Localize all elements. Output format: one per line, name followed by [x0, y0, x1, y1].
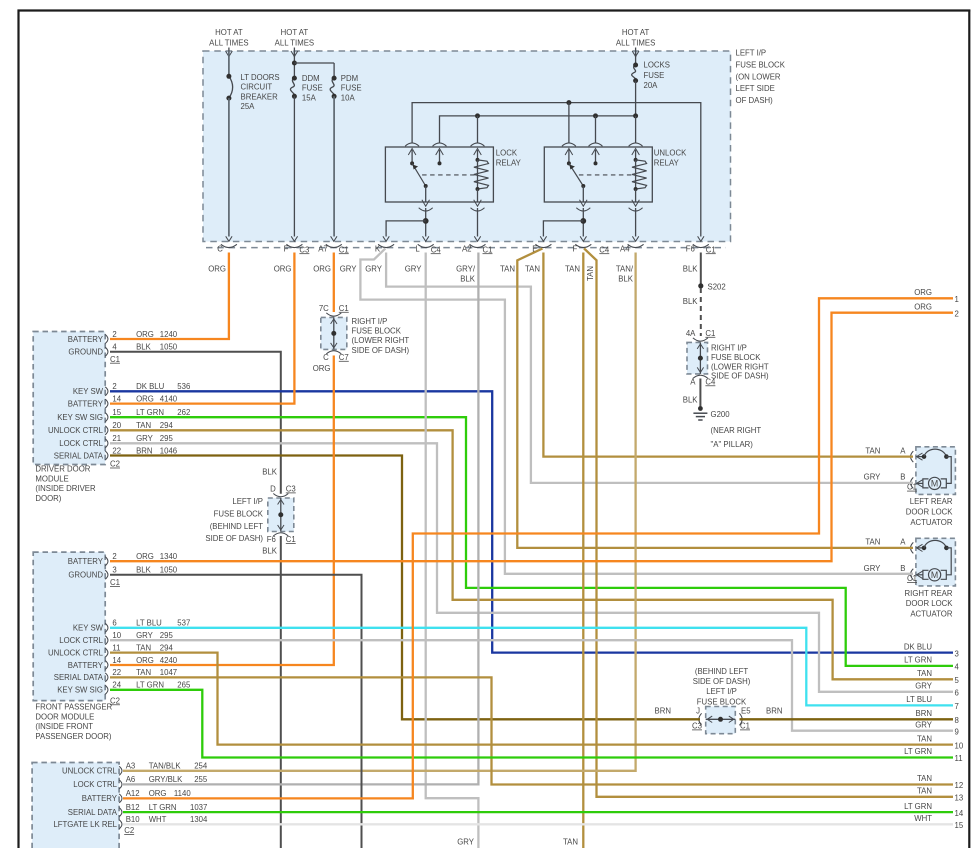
svg-text:LT BLU: LT BLU — [906, 695, 932, 704]
svg-text:C1: C1 — [339, 304, 349, 313]
svg-text:DOOR MODULE: DOOR MODULE — [35, 712, 94, 721]
label: HOT AT ALL TIMES (feed 2) — [275, 28, 314, 47]
svg-text:C1: C1 — [907, 574, 917, 583]
module pin A3 (UNLOCK CTRL) of REAR MODULE — [62, 762, 208, 776]
svg-text:20: 20 — [112, 421, 121, 430]
svg-text:D: D — [270, 485, 276, 494]
svg-text:BRN: BRN — [655, 707, 671, 716]
svg-text:SIDE OF DASH): SIDE OF DASH) — [693, 677, 751, 686]
svg-text:295: 295 — [160, 631, 174, 640]
svg-text:A2: A2 — [462, 245, 472, 254]
svg-text:DRIVER DOOR: DRIVER DOOR — [35, 465, 90, 474]
svg-text:265: 265 — [177, 681, 191, 690]
label: HOT AT ALL TIMES (feed 1) — [209, 28, 248, 47]
svg-text:J: J — [696, 706, 700, 715]
svg-text:GRY: GRY — [365, 264, 383, 273]
module pin 15 (KEY SW SIG) of DRIVER DOOR MODULE — [57, 408, 190, 422]
wire: dashed BLK from S202 to 4A connector — [700, 288, 702, 336]
svg-text:(ON LOWER: (ON LOWER — [736, 72, 781, 81]
svg-text:TAN: TAN — [136, 643, 151, 652]
svg-text:MODULE: MODULE — [35, 474, 68, 483]
svg-text:TAN: TAN — [586, 266, 595, 281]
svg-text:E5: E5 — [741, 706, 751, 715]
module pin 20 (UNLOCK CTRL) of DRIVER DOOR MODULE — [48, 421, 174, 435]
svg-text:BLK: BLK — [683, 264, 699, 273]
svg-text:F6: F6 — [686, 245, 695, 254]
svg-text:LEFT I/P: LEFT I/P — [232, 497, 263, 506]
relay LOCK RELAY: coil — [474, 150, 489, 202]
svg-text:254: 254 — [194, 762, 208, 771]
connector pin F6 at fuse block bottom — [686, 236, 716, 254]
svg-text:22: 22 — [112, 446, 121, 455]
svg-text:TAN/BLK: TAN/BLK — [149, 762, 182, 771]
svg-text:1050: 1050 — [160, 343, 178, 352]
wire GRY 295: passenger LOCK CTRL to right edge (circuit 9) — [110, 640, 953, 731]
label: module caption REAR MODULE — [0, 0, 1, 1]
svg-text:UNLOCK CTRL: UNLOCK CTRL — [48, 648, 104, 657]
module box: DRIVER DOOR MODULE — [33, 332, 105, 465]
wire WHT 1304: rear module LFTGATE LK REL B10 to right edge (circuit 15) — [123, 823, 953, 825]
connector pin F at fuse block bottom — [284, 236, 310, 254]
fuse: PDM FUSE 10A — [294, 63, 336, 237]
svg-text:25A: 25A — [241, 102, 256, 111]
svg-text:B: B — [900, 473, 905, 482]
svg-text:A: A — [690, 377, 696, 386]
svg-text:SIDE OF DASH): SIDE OF DASH) — [205, 534, 263, 543]
svg-text:7: 7 — [955, 702, 959, 711]
splice S202 — [698, 282, 726, 291]
wire LT GRN 262: driver KEY SW SIG to right edge (circuit 4) — [110, 417, 953, 666]
svg-text:A: A — [900, 538, 906, 547]
relay LOCK RELAY: fixed contact leg — [438, 150, 442, 165]
svg-text:C3: C3 — [286, 485, 296, 494]
relay LOCK RELAY: bottom pin at x=477.5 — [471, 200, 485, 211]
svg-text:ORG: ORG — [274, 264, 292, 273]
wire: BLK from F6 to splice S202 — [700, 253, 702, 286]
svg-text:TAN: TAN — [563, 837, 578, 846]
svg-text:ORG: ORG — [149, 789, 167, 798]
label: circuit 14 (LT GRN) at right edge — [904, 802, 964, 818]
svg-text:RIGHT I/P: RIGHT I/P — [352, 317, 388, 326]
svg-text:WHT: WHT — [149, 815, 167, 824]
svg-text:DOOR LOCK: DOOR LOCK — [906, 599, 954, 608]
svg-text:A12: A12 — [126, 789, 140, 798]
relay LOCK RELAY: switch output wire to border with branch — [386, 208, 429, 237]
label: module caption DRIVER DOOR MODULE — [35, 465, 96, 504]
svg-text:6: 6 — [955, 689, 959, 698]
svg-text:DOOR): DOOR) — [35, 494, 61, 503]
svg-text:L: L — [415, 245, 420, 254]
svg-text:ORG: ORG — [313, 264, 331, 273]
svg-text:4A: 4A — [686, 329, 696, 338]
module pin 11 (UNLOCK CTRL) of FRONT PASSENGER DOOR MODULE — [48, 643, 174, 657]
svg-text:F: F — [573, 245, 578, 254]
relay LOCK RELAY: top pin at x=412.1 — [405, 143, 419, 155]
label: circuit 9 (GRY) at right edge — [915, 720, 959, 736]
wire ORG: fuse pin A7 down to 7C/C1 box — [333, 253, 335, 313]
relay LOCK RELAY: linkage dashed line — [422, 174, 475, 176]
svg-text:RIGHT REAR: RIGHT REAR — [905, 589, 953, 598]
wire: BLK from A/C4 to ground G200 — [699, 379, 701, 408]
label: GRY/BLK under pin A2 — [456, 264, 476, 283]
svg-text:BRN: BRN — [916, 709, 932, 718]
svg-text:LOCKS: LOCKS — [644, 61, 670, 70]
wire TAN 1047: passenger SERIAL DATA to right edge (circuit 12) — [110, 677, 953, 784]
svg-text:TAN: TAN — [565, 264, 580, 273]
LEFT REAR DOOR LOCK ACTUATOR: motor M — [917, 457, 952, 490]
svg-text:C1: C1 — [339, 245, 349, 254]
svg-text:14: 14 — [955, 809, 964, 818]
svg-text:BLK: BLK — [460, 274, 476, 283]
connector C1 at top of inline box — [319, 304, 349, 316]
svg-text:BATTERY: BATTERY — [68, 557, 104, 566]
svg-text:ORG: ORG — [208, 264, 226, 273]
wire BLK 1050: driver module GROUND 4 to D/C3 fuse block and down — [110, 352, 281, 494]
svg-text:FUSE BLOCK: FUSE BLOCK — [711, 353, 761, 362]
svg-text:GRY/BLK: GRY/BLK — [149, 775, 183, 784]
svg-text:LOCK CTRL: LOCK CTRL — [59, 636, 103, 645]
RIGHT REAR DOOR LOCK ACTUATOR: internal mechanism arc — [917, 540, 949, 551]
svg-text:BLK: BLK — [618, 274, 634, 283]
svg-text:C3: C3 — [692, 722, 702, 731]
label: circuit 15 (WHT) at right edge — [914, 814, 964, 830]
svg-text:A4: A4 — [620, 245, 630, 254]
relay UNLOCK RELAY: box — [544, 147, 652, 202]
svg-text:F: F — [284, 245, 289, 254]
svg-text:4: 4 — [955, 663, 960, 672]
svg-text:TAN: TAN — [136, 421, 151, 430]
relay UNLOCK RELAY: switch lever — [569, 163, 585, 188]
svg-text:ACTUATOR: ACTUATOR — [910, 609, 953, 618]
relay UNLOCK RELAY: top pin at x=635.6 — [629, 143, 643, 155]
label: circuit 10 (TAN) at right edge — [917, 734, 964, 750]
page frame: top border line — [18, 9, 971, 11]
svg-text:B12: B12 — [126, 803, 140, 812]
svg-text:BLK: BLK — [262, 547, 278, 556]
wire: lower bus drop to unlock relay contact pin — [595, 116, 597, 143]
wire TAN 294: driver UNLOCK CTRL to right edge (circuit 5) — [110, 430, 953, 679]
svg-text:537: 537 — [177, 619, 190, 628]
label: circuit 13 (TAN) at right edge — [917, 787, 963, 803]
svg-text:UNLOCK: UNLOCK — [654, 149, 687, 158]
svg-text:536: 536 — [177, 382, 190, 391]
svg-text:WHT: WHT — [914, 814, 932, 823]
svg-text:(LOWER RIGHT: (LOWER RIGHT — [711, 362, 769, 371]
svg-text:LEFT I/P: LEFT I/P — [706, 687, 737, 696]
relay LOCK RELAY: top pin at x=439.5 — [433, 143, 447, 155]
svg-text:LT GRN: LT GRN — [149, 803, 177, 812]
wire GRY: fuse pin K left branch to right rear actuator pin B — [360, 249, 913, 574]
svg-text:22: 22 — [112, 668, 121, 677]
svg-text:C7: C7 — [339, 353, 349, 362]
svg-text:C2: C2 — [110, 696, 120, 705]
svg-text:294: 294 — [160, 643, 174, 652]
module pin 2 (BATTERY) of DRIVER DOOR MODULE — [68, 330, 178, 344]
svg-text:GROUND: GROUND — [68, 348, 103, 357]
svg-text:5: 5 — [955, 676, 960, 685]
svg-text:3: 3 — [112, 566, 116, 575]
module pin 2 (BATTERY) of FRONT PASSENGER DOOR MODULE — [68, 552, 178, 566]
svg-text:LT GRN: LT GRN — [136, 681, 164, 690]
module pin A6 (LOCK CTRL) of REAR MODULE — [73, 775, 208, 789]
relay LOCK RELAY: top pin at x=477.5 — [471, 143, 485, 155]
svg-text:(LOWER RIGHT: (LOWER RIGHT — [352, 336, 410, 345]
svg-text:C: C — [217, 245, 223, 254]
relay LOCK RELAY: switch common leg — [410, 150, 414, 165]
fuse block inline box at x=280.8 (D/C3) — [268, 498, 294, 532]
svg-text:(BEHIND LEFT: (BEHIND LEFT — [695, 667, 749, 676]
svg-text:ORG: ORG — [914, 302, 932, 311]
wire: bus from lock relay pin 30 to F6 (upper bus) — [412, 103, 701, 237]
svg-text:14: 14 — [112, 656, 121, 665]
label: DDM FUSE 15A — [302, 74, 323, 102]
svg-text:A3: A3 — [126, 762, 136, 771]
svg-text:10: 10 — [112, 631, 121, 640]
svg-text:8: 8 — [955, 716, 959, 725]
svg-text:C1: C1 — [907, 483, 917, 492]
svg-text:20A: 20A — [644, 81, 659, 90]
label: circuit 1 (ORG) at right edge — [914, 288, 959, 304]
svg-text:C: C — [323, 353, 329, 362]
svg-text:G200: G200 — [711, 410, 731, 419]
relay LOCK RELAY: label — [496, 149, 522, 168]
label: circuit 3 (DK BLU) at right edge — [904, 642, 959, 658]
relay LOCK RELAY: switch output leg — [425, 186, 427, 202]
svg-text:262: 262 — [177, 408, 190, 417]
svg-text:2: 2 — [112, 330, 116, 339]
label: caption RIGHT REAR DOOR LOCK ACTUATOR — [905, 589, 954, 619]
connector pin A4 at fuse block bottom — [620, 236, 644, 253]
svg-text:13: 13 — [955, 794, 964, 803]
svg-text:ORG: ORG — [136, 394, 154, 403]
relay UNLOCK RELAY: coil — [632, 150, 647, 202]
label: circuit 6 (GRY) at right edge — [915, 682, 959, 698]
svg-text:1140: 1140 — [174, 789, 191, 798]
svg-text:B: B — [900, 564, 905, 573]
svg-text:LT BLU: LT BLU — [136, 619, 162, 628]
connector C3 at left of J/E5 box — [692, 706, 702, 730]
svg-text:PDM: PDM — [341, 74, 358, 83]
label: circuit 7 (LT BLU) at right edge — [906, 695, 959, 711]
module pin 24 (KEY SW SIG) of FRONT PASSENGER DOOR MODULE — [57, 681, 191, 695]
label: LOCKS FUSE 20A — [644, 61, 670, 91]
relay LOCK RELAY: bottom pin at x=425.7 — [419, 200, 433, 211]
svg-text:1037: 1037 — [190, 803, 207, 812]
relay UNLOCK RELAY: coil wire to border — [635, 208, 637, 237]
svg-text:14: 14 — [112, 394, 121, 403]
svg-text:(BEHIND LEFT: (BEHIND LEFT — [210, 522, 264, 531]
svg-text:FUSE BLOCK: FUSE BLOCK — [214, 509, 264, 518]
svg-text:15: 15 — [112, 408, 121, 417]
svg-text:12: 12 — [955, 781, 964, 790]
connector C4 at bottom of inline box — [690, 375, 716, 386]
svg-text:C1: C1 — [705, 329, 715, 338]
relay LOCK RELAY: coil wire to border — [477, 208, 479, 237]
svg-text:LT GRN: LT GRN — [136, 408, 164, 417]
svg-text:2: 2 — [955, 309, 959, 318]
svg-text:BLK: BLK — [683, 396, 699, 405]
svg-text:FUSE: FUSE — [302, 84, 323, 93]
svg-text:FUSE: FUSE — [341, 84, 362, 93]
connector strip dashed line under fuse block bottom edge — [206, 247, 726, 249]
svg-text:255: 255 — [194, 775, 208, 784]
relay UNLOCK RELAY: bottom pin at x=583.3 — [576, 200, 590, 211]
svg-text:UNLOCK CTRL: UNLOCK CTRL — [62, 767, 118, 776]
svg-text:LEFT SIDE: LEFT SIDE — [736, 84, 775, 93]
svg-text:FUSE BLOCK: FUSE BLOCK — [736, 60, 786, 69]
svg-text:C2: C2 — [124, 826, 134, 835]
svg-text:BLK: BLK — [262, 468, 278, 477]
svg-text:BLK: BLK — [136, 343, 152, 352]
label: circuit 11 (LT GRN) at right edge — [904, 747, 962, 763]
svg-text:24: 24 — [112, 681, 121, 690]
svg-text:GRY: GRY — [457, 837, 475, 846]
actuator box: RIGHT REAR DOOR LOCK ACTUATOR — [916, 538, 956, 586]
label: circuit 2 (ORG) at right edge — [914, 302, 959, 318]
svg-text:GRY/: GRY/ — [456, 264, 476, 273]
svg-text:KEY SW SIG: KEY SW SIG — [57, 686, 103, 695]
svg-text:GRY: GRY — [340, 264, 358, 273]
wire TAN: fuse pin E left branch to right rear actuator pin A — [517, 249, 913, 548]
svg-text:GRY: GRY — [915, 720, 933, 729]
label: LEFT I/P FUSE BLOCK (ON LOWER LEFT SIDE OF DASH) — [736, 49, 786, 106]
svg-text:BATTERY: BATTERY — [82, 794, 118, 803]
label: caption LEFT REAR DOOR LOCK ACTUATOR — [906, 497, 954, 527]
connector pin L at fuse block bottom — [415, 236, 441, 254]
svg-text:FUSE BLOCK: FUSE BLOCK — [352, 327, 402, 336]
svg-text:BREAKER: BREAKER — [241, 92, 279, 101]
module pin 3 (GROUND) of FRONT PASSENGER DOOR MODULE — [68, 566, 177, 580]
svg-text:GRY: GRY — [915, 682, 933, 691]
svg-text:ALL TIMES: ALL TIMES — [616, 38, 655, 47]
svg-text:LOCK: LOCK — [496, 149, 518, 158]
svg-text:SERIAL DATA: SERIAL DATA — [68, 808, 118, 817]
junction on upper bus at unlock relay pin — [566, 100, 571, 105]
svg-text:BRN: BRN — [136, 446, 152, 455]
svg-text:TAN: TAN — [917, 669, 932, 678]
svg-text:SERIAL DATA: SERIAL DATA — [54, 451, 104, 460]
svg-text:SIDE OF DASH): SIDE OF DASH) — [352, 346, 410, 355]
module box: REAR MODULE — [32, 763, 119, 848]
svg-text:TAN: TAN — [136, 668, 151, 677]
svg-text:BRN: BRN — [766, 707, 782, 716]
relay UNLOCK RELAY: label — [654, 149, 687, 168]
svg-text:HOT AT: HOT AT — [281, 28, 309, 37]
svg-text:KEY SW: KEY SW — [73, 624, 104, 633]
wire ORG 4140: fuse pin F to driver module BATTERY 14 — [110, 253, 294, 404]
svg-text:3: 3 — [955, 649, 959, 658]
wire BRN: E5 pin of left I/P fuse block to right edge (circuit 8) — [740, 718, 954, 720]
wire: lower bus drop to lock relay coil — [477, 116, 479, 143]
label: HOT AT ALL TIMES (feed 3) — [616, 28, 655, 47]
svg-text:CIRCUIT: CIRCUIT — [241, 83, 273, 92]
RIGHT REAR DOOR LOCK ACTUATOR: pin B bracket — [900, 564, 913, 580]
svg-text:FUSE: FUSE — [644, 71, 665, 80]
svg-text:ORG: ORG — [914, 288, 932, 297]
label: circuit 12 (TAN) at right edge — [917, 774, 963, 790]
svg-text:C1: C1 — [110, 578, 120, 587]
LEFT REAR DOOR LOCK ACTUATOR: pin A bracket — [900, 446, 913, 462]
svg-text:TAN: TAN — [865, 446, 880, 455]
svg-text:9: 9 — [955, 727, 959, 736]
fuse block box: LEFT I/P FUSE BLOCK (dashed outline, light blue) — [203, 51, 731, 242]
wire GRY: fuse pin K straight branch to left rear actuator pin B — [386, 253, 913, 483]
svg-text:21: 21 — [112, 434, 121, 443]
svg-text:1046: 1046 — [160, 446, 177, 455]
svg-text:C1: C1 — [110, 355, 120, 364]
relay UNLOCK RELAY: switch output leg — [582, 186, 584, 202]
wire BRN 1046: driver SERIAL DATA to J pin of left I/P fuse block — [110, 456, 700, 720]
svg-text:LEFT REAR: LEFT REAR — [910, 497, 953, 506]
label: module caption FRONT PASSENGER DOOR MODULE — [35, 703, 112, 742]
wire ORG 1340: passenger BATTERY 2 to right edge (circuit 2) — [110, 313, 953, 562]
wire GRY: fuse pin L down to bottom of page — [426, 253, 479, 848]
wire GRY 295: driver LOCK CTRL to right edge (circuit 6) — [110, 443, 953, 692]
svg-text:6: 6 — [112, 619, 116, 628]
svg-text:(INSIDE FRONT: (INSIDE FRONT — [35, 722, 93, 731]
svg-text:TAN: TAN — [917, 787, 932, 796]
svg-text:"A" PILLAR): "A" PILLAR) — [711, 440, 754, 449]
svg-text:A6: A6 — [126, 775, 136, 784]
wire TAN/BLK 254: fuse pin A4 to rear module UNLOCK CTRL A3 — [123, 253, 636, 771]
svg-text:C1: C1 — [483, 245, 493, 254]
svg-text:A7: A7 — [318, 245, 328, 254]
svg-text:FUSE BLOCK: FUSE BLOCK — [697, 697, 747, 706]
svg-text:GRY: GRY — [864, 473, 882, 482]
svg-text:GRY: GRY — [405, 264, 423, 273]
wire GRY/BLK 255: fuse pin A2 to rear module LOCK CTRL A6 — [123, 253, 478, 785]
wire: upper bus drop to unlock relay switch pin — [568, 103, 570, 143]
wire: hot feed 3 entering fuse block — [632, 48, 639, 58]
svg-text:BLK: BLK — [683, 297, 699, 306]
svg-text:LT DOORS: LT DOORS — [241, 73, 280, 82]
module pin 4 (GROUND) of DRIVER DOOR MODULE — [68, 343, 177, 357]
wire TAN: fuse pin F right branch to right edge (circuit 13) — [584, 249, 953, 797]
svg-text:GRY: GRY — [864, 564, 882, 573]
relay UNLOCK RELAY: switch common leg — [567, 150, 571, 165]
LEFT REAR DOOR LOCK ACTUATOR: internal mechanism arc — [917, 449, 949, 460]
svg-text:2: 2 — [112, 382, 116, 391]
svg-text:TAN: TAN — [917, 774, 932, 783]
module pin B12 (SERIAL DATA) of REAR MODULE — [68, 803, 208, 817]
svg-text:C1: C1 — [706, 245, 716, 254]
module pin 10 (LOCK CTRL) of FRONT PASSENGER DOOR MODULE — [59, 631, 173, 645]
svg-text:HOT AT: HOT AT — [622, 28, 650, 37]
svg-text:ORG: ORG — [313, 364, 331, 373]
svg-text:ORG: ORG — [136, 656, 154, 665]
relay UNLOCK RELAY: switch output wire to border with branch — [543, 208, 586, 237]
svg-text:OF DASH): OF DASH) — [736, 96, 774, 105]
svg-text:C2: C2 — [110, 460, 120, 469]
relay LOCK RELAY: box — [385, 147, 493, 202]
svg-text:15: 15 — [955, 821, 964, 830]
svg-text:1304: 1304 — [190, 815, 208, 824]
connector pin C at fuse block bottom — [217, 236, 237, 253]
label: circuit 8 (BRN) at right edge — [916, 709, 959, 725]
relay LOCK RELAY: switch lever — [412, 163, 428, 188]
module pin 21 (LOCK CTRL) of DRIVER DOOR MODULE — [59, 434, 173, 448]
svg-text:LT GRN: LT GRN — [904, 747, 932, 756]
connector C3 at top of inline box — [270, 485, 296, 497]
page frame: right border line — [968, 10, 970, 848]
svg-text:PASSENGER DOOR): PASSENGER DOOR) — [35, 732, 112, 741]
svg-text:GROUND: GROUND — [68, 571, 103, 580]
svg-text:ALL TIMES: ALL TIMES — [275, 38, 314, 47]
connector pin A7 at fuse block bottom — [318, 236, 349, 254]
svg-text:DK BLU: DK BLU — [136, 382, 165, 391]
svg-text:1240: 1240 — [160, 330, 178, 339]
LEFT REAR DOOR LOCK ACTUATOR: pin B bracket — [900, 473, 913, 489]
